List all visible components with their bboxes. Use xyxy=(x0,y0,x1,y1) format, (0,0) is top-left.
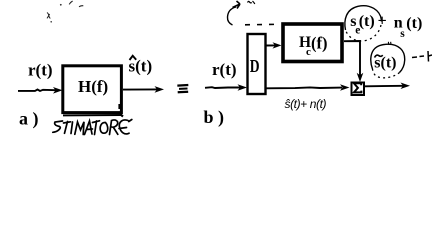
svg-text:H(f): H(f) xyxy=(78,77,108,96)
svg-text:(t): (t) xyxy=(359,13,375,30)
annotation dashes right of circle xyxy=(412,56,424,58)
svg-text:ŝ(t)+ n(t): ŝ(t)+ n(t) xyxy=(285,97,327,111)
block H(f) xyxy=(63,66,122,113)
pencil dot xyxy=(50,21,52,23)
wire bottom D to sum arrow xyxy=(266,86,342,89)
block Hc(f) xyxy=(283,24,342,62)
wire input arrow b xyxy=(205,86,240,89)
annotation dashed line to Hc xyxy=(245,23,280,26)
svg-text:D: D xyxy=(250,56,260,76)
annotation mark at right edge xyxy=(428,51,432,62)
svg-text:(t): (t) xyxy=(406,15,422,32)
annotation scribble N xyxy=(248,1,255,4)
pencil slash xyxy=(69,1,72,4)
svg-text:a ): a ) xyxy=(19,109,39,130)
svg-text:+: + xyxy=(378,12,387,29)
wire Hc to sum (right then down, arrow) xyxy=(344,41,360,76)
svg-text:r(t): r(t) xyxy=(212,60,237,79)
pencil tick below n_s(t) xyxy=(388,42,391,45)
equivalence symbol xyxy=(177,85,188,92)
svg-text:s(t): s(t) xyxy=(374,54,396,71)
svg-text:s: s xyxy=(400,28,405,40)
svg-text:s(t): s(t) xyxy=(129,57,153,76)
svg-text:(f): (f) xyxy=(311,34,327,53)
pencil dash xyxy=(79,6,83,7)
handwritten STIMATORE xyxy=(53,120,132,135)
block sum xyxy=(352,83,365,96)
svg-text:b ): b ) xyxy=(204,107,225,128)
pencil mark lambda top-left xyxy=(47,13,50,19)
annotation ellipse around se(t) xyxy=(345,6,381,30)
annotation hook curve with arrow xyxy=(227,7,236,25)
block D xyxy=(248,34,266,94)
wire output arrow a xyxy=(123,88,157,90)
pencil dot xyxy=(60,4,62,6)
svg-text:r(t): r(t) xyxy=(28,61,53,80)
wire D to Hc arrow xyxy=(266,44,275,46)
wire output arrow b xyxy=(365,85,403,88)
wire input arrow a xyxy=(18,90,56,92)
